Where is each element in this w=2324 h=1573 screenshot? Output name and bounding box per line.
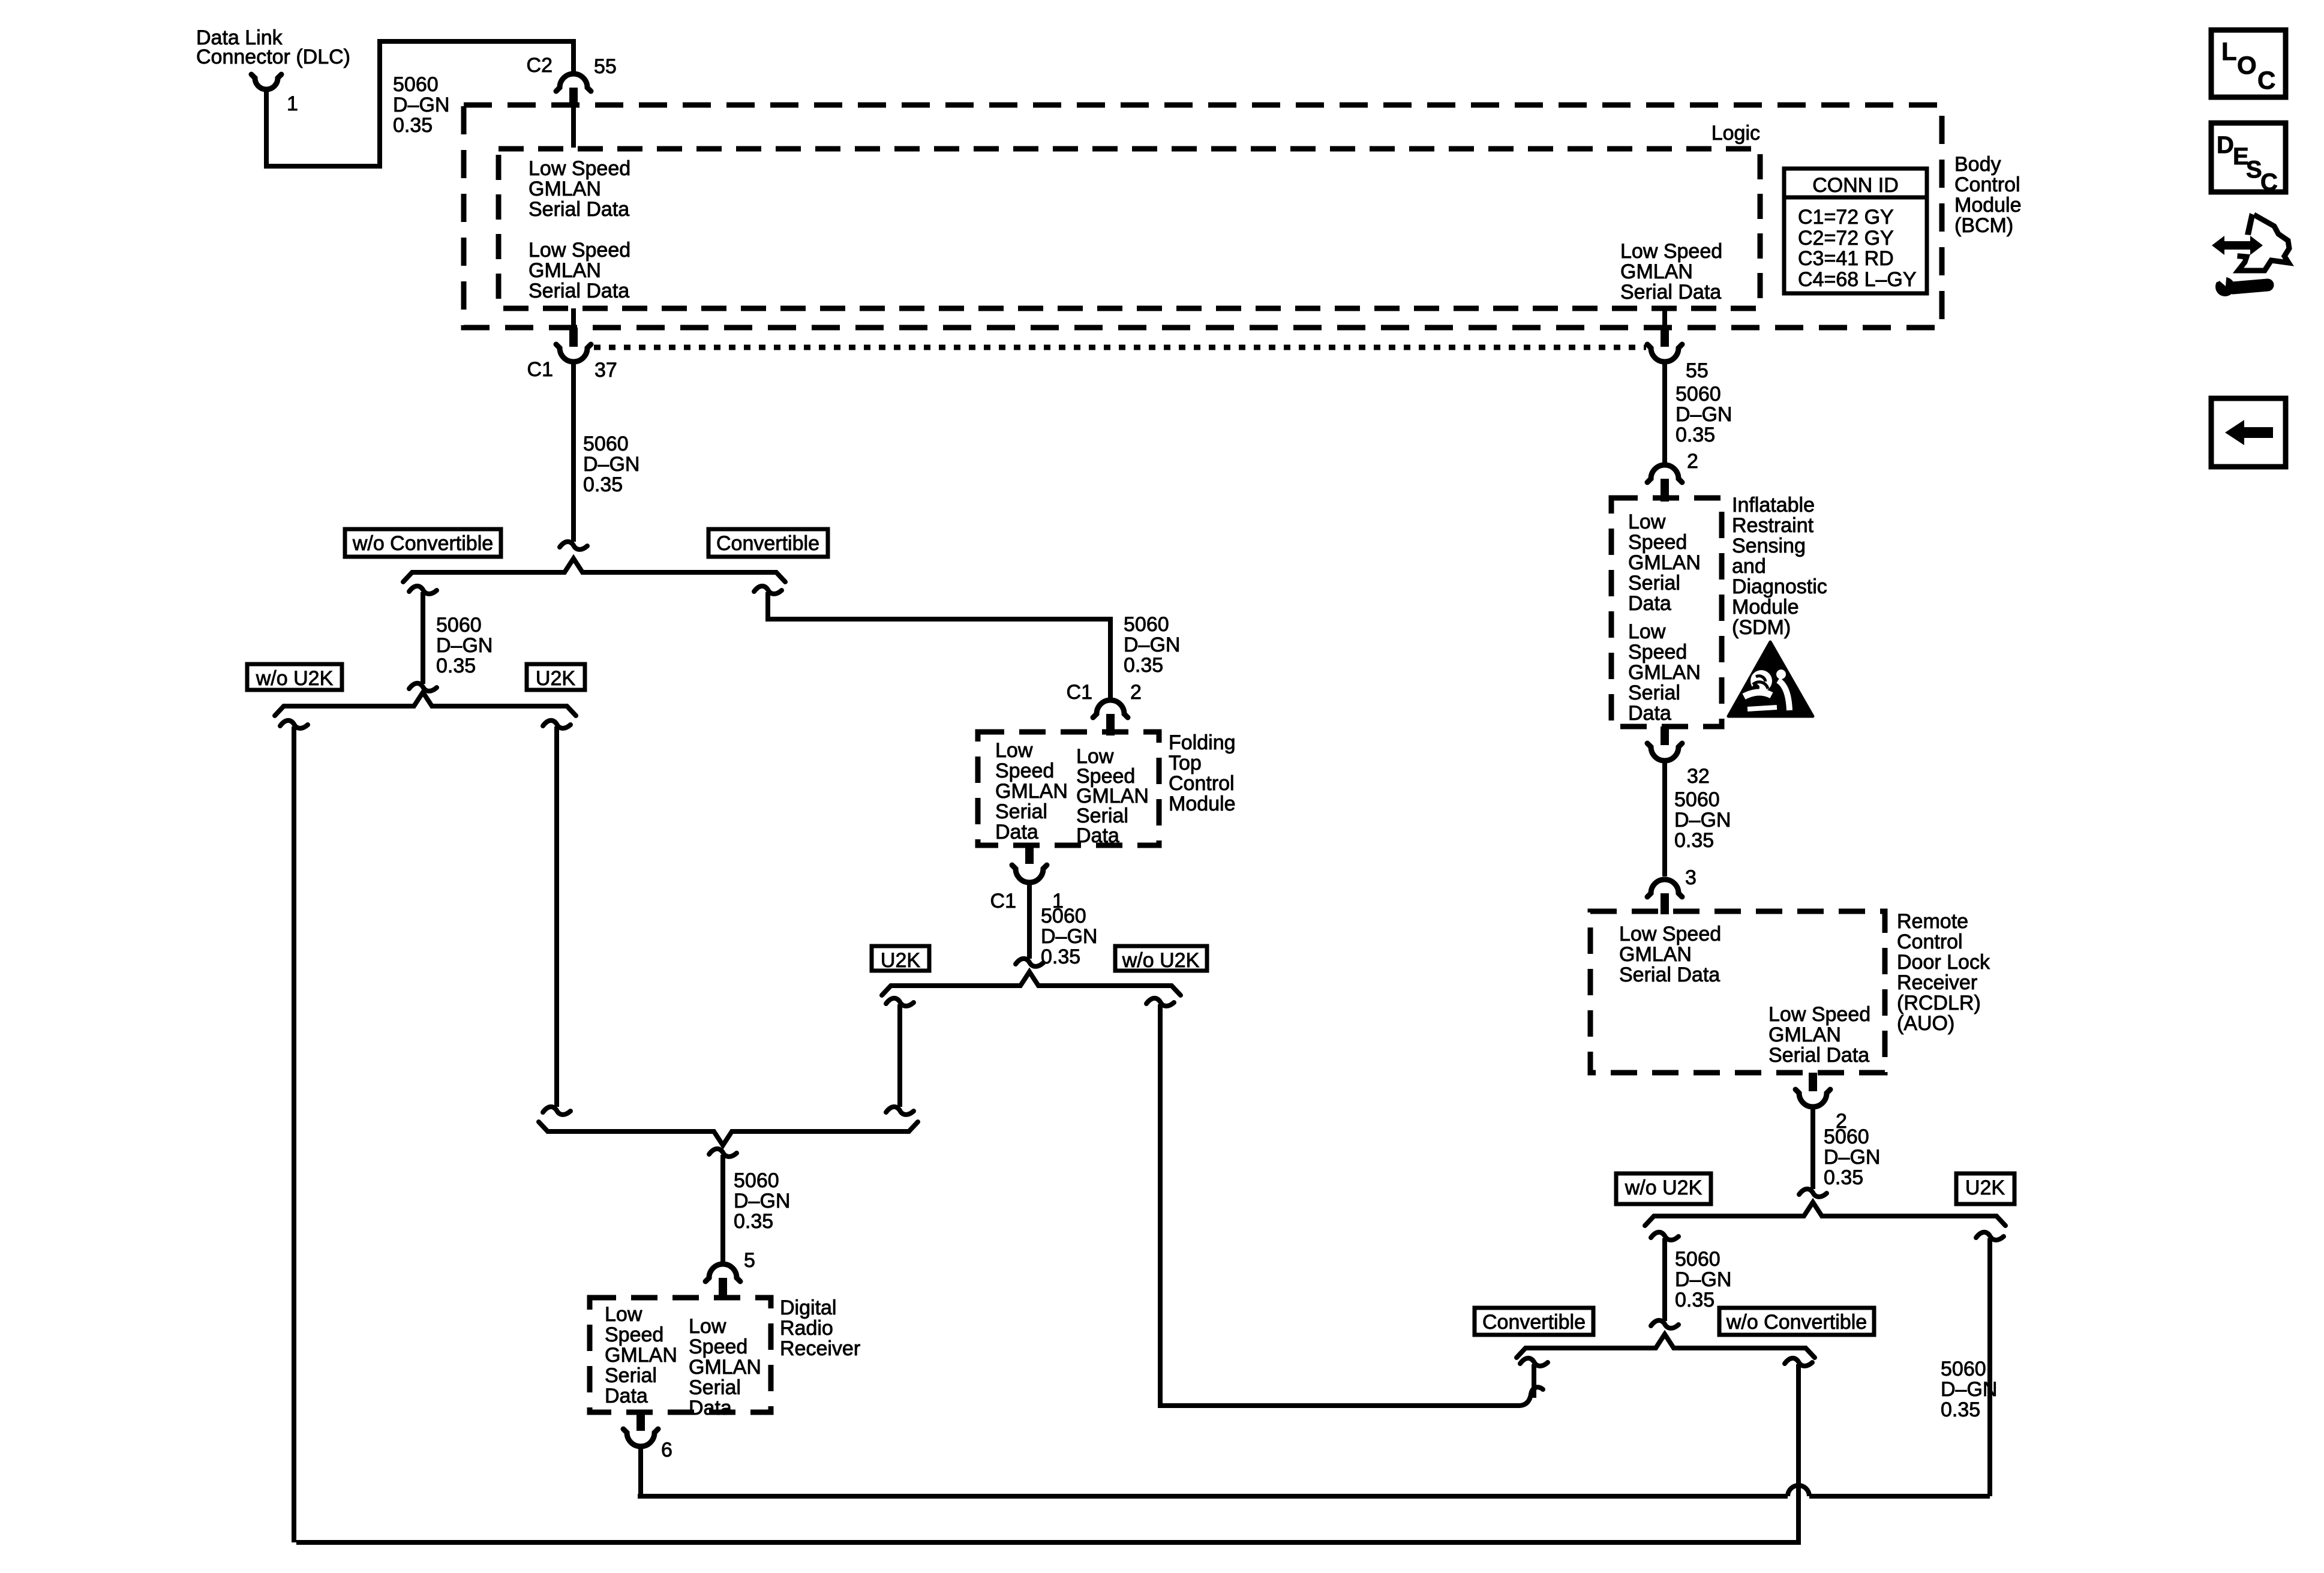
svg-text:2: 2: [1687, 450, 1698, 473]
option box: w/o U2K (left): [247, 664, 342, 690]
option box: U2K (RCDLR right): [1956, 1173, 2014, 1204]
svg-text:O: O: [2237, 51, 2257, 79]
option split: U2K | w/o U2K (FTCM): [882, 972, 1181, 995]
terminal stub into SDM: [1661, 479, 1669, 502]
option split: w/o U2K | U2K (left): [275, 692, 576, 716]
svg-text:C1=72 GYC2=72 GYC3=41 RDC4=68: C1=72 GYC2=72 GYC3=41 RDC4=68 L–GY: [1798, 206, 1917, 291]
terminal stub into RCDLR: [1661, 893, 1669, 914]
svg-text:5060D–GN0.35: 5060D–GN0.35: [1124, 613, 1180, 677]
connector: BCM C1 cavity 37: [556, 344, 591, 362]
svg-text:5060D–GN0.35: 5060D–GN0.35: [1675, 1248, 1731, 1311]
connector: RCDLR cavity 3: [1647, 879, 1682, 897]
svg-text:C: C: [2260, 169, 2278, 196]
svg-text:LowSpeedGMLANSerialData: LowSpeedGMLANSerialData: [995, 739, 1068, 843]
svg-text:Low SpeedGMLANSerial Data: Low SpeedGMLANSerial Data: [1620, 240, 1722, 304]
terminal stub out of RCDLR (pin 2): [1809, 1073, 1817, 1091]
svg-text:LowSpeedGMLANSerialData: LowSpeedGMLANSerialData: [689, 1315, 761, 1419]
connector: SDM cavity 32: [1647, 743, 1682, 761]
terminal stub out of DRR (pin 6): [636, 1412, 645, 1431]
icon: DESC reference box: [2211, 123, 2286, 196]
svg-text:InflatableRestraintSensingandD: InflatableRestraintSensingandDiagnosticM…: [1732, 494, 1827, 639]
svg-text:Data LinkConnector (DLC): Data LinkConnector (DLC): [196, 26, 350, 68]
wire: BCM C1-55 down to SDM pin 2: [1662, 364, 1667, 463]
svg-text:D: D: [2217, 132, 2234, 158]
wire end hook (left U2K branch): [543, 1107, 571, 1115]
junction curl: w/o U2K wire end meets Convertible branch: [1520, 1387, 1543, 1406]
svg-text:w/o U2K: w/o U2K: [256, 667, 334, 690]
terminal stub out of BCM (C1-55): [1661, 328, 1669, 347]
svg-text:Convertible: Convertible: [716, 532, 819, 555]
wire: w/o Convertible branch down, left along bottom to left w/o U2K branch: [296, 1364, 1798, 1542]
option box: Convertible (left): [708, 529, 828, 557]
connector: BCM C2 cavity: [556, 74, 591, 91]
svg-text:55: 55: [1686, 359, 1709, 382]
wire: merged U2K wire down to DRR pin 5: [720, 1155, 725, 1262]
wire: left U2K branch down to merge: [554, 727, 559, 1107]
wire: Convertible branch to Folding Top Control Module C1-2: [768, 592, 1110, 698]
icon: back-arrow reference box: [2211, 398, 2286, 467]
block: BCM Logic inner dashed box: [499, 149, 1760, 308]
svg-text:C1: C1: [990, 890, 1016, 912]
svg-text:5060D–GN0.35: 5060D–GN0.35: [436, 614, 493, 677]
wire: RCDLR U2K branch down to DRR return line: [1987, 1238, 1992, 1496]
svg-text:L: L: [2221, 37, 2237, 65]
wire end hook (RCDLR w/o U2K branch): [1651, 1320, 1679, 1328]
option box: w/o Convertible: [1719, 1308, 1874, 1335]
svg-text:Low SpeedGMLANSerial Data: Low SpeedGMLANSerial Data: [1619, 923, 1721, 986]
wire: inside BCM Logic to C1-55: [1662, 308, 1667, 328]
svg-text:5060D–GN0.35: 5060D–GN0.35: [1676, 383, 1732, 446]
wire: FTCM pin 1 down to option split: [1027, 884, 1032, 959]
module: Body Control Module (BCM) outer dashed box: [464, 105, 1942, 328]
wire: w/o Convertible sub-branch: [421, 592, 425, 684]
wire: RCDLR w/o U2K branch: [1662, 1238, 1667, 1321]
svg-text:Logic: Logic: [1712, 122, 1760, 145]
terminal stub into FTCM: [1106, 714, 1115, 736]
svg-text:U2K: U2K: [881, 949, 920, 972]
table: CONN ID: [1784, 169, 1927, 293]
connector: FTCM cavity 1: [1012, 865, 1047, 882]
wire: BCM C1-37 down to first option split: [571, 364, 576, 542]
svg-text:BodyControlModule(BCM): BodyControlModule(BCM): [1954, 153, 2022, 237]
wire: SDM pin 32 down to RCDLR pin 3: [1662, 763, 1667, 876]
wire start hook (Convertible branch): [1520, 1358, 1548, 1366]
connector: DLC cavity symbol: [251, 74, 281, 89]
option split: w/o Convertible | Convertible: [403, 559, 785, 582]
svg-text:LowSpeedGMLANSerialData: LowSpeedGMLANSerialData: [1628, 511, 1701, 615]
module: Digital Radio Receiver dashed box: [590, 1298, 771, 1412]
svg-text:CONN ID: CONN ID: [1812, 174, 1899, 197]
wire: FTCM U2K branch down to merge: [897, 1004, 902, 1107]
option split: w/o U2K | U2K (RCDLR): [1645, 1202, 2005, 1226]
svg-text:RemoteControlDoor LockReceiver: RemoteControlDoor LockReceiver(RCDLR)(AU…: [1897, 910, 1990, 1035]
icon: LOC reference box: [2211, 30, 2286, 97]
svg-text:DigitalRadioReceiver: DigitalRadioReceiver: [780, 1296, 860, 1360]
wire: Convertible branch down to junction: [1532, 1364, 1536, 1398]
wire: dotted link between BCM C1-37 and C1-55 connectors: [594, 345, 1646, 350]
wire: left w/o U2K branch down to bottom return line: [292, 727, 296, 1542]
wire start hook (FTCM w/o U2K branch): [1146, 998, 1174, 1006]
svg-text:5: 5: [744, 1249, 755, 1272]
option split: Convertible | w/o Convertible (RCDLR): [1517, 1334, 1815, 1358]
wire start hook (FTCM U2K branch): [886, 998, 914, 1006]
wire: DRR pin 6 return line to RCDLR U2K branch (with hop): [640, 1494, 1788, 1496]
wire start hook (DRR feed): [709, 1149, 737, 1157]
wire: DLC pin1 to BCM C2 (5060 D-GN 0.35): [266, 41, 574, 166]
wire start hook (RCDLR U2K branch): [1976, 1232, 2004, 1240]
wire start hook (left U2K branch): [543, 721, 571, 728]
connector: FTCM cavity 2: [1093, 700, 1128, 718]
wire hop: return line crosses w/o Convertible branch: [1788, 1485, 1809, 1496]
wire: FTCM w/o U2K branch down and right to Convertible branch: [1160, 1004, 1520, 1406]
svg-text:6: 6: [661, 1439, 672, 1461]
wire end hook (FTCM feed): [1016, 959, 1043, 966]
svg-text:Low SpeedGMLANSerial Data: Low SpeedGMLANSerial Data: [1768, 1003, 1870, 1067]
svg-text:3: 3: [1685, 866, 1697, 889]
wire: inside BCM from C2-55 to Logic box: [571, 107, 576, 148]
svg-text:5060D–GN0.35: 5060D–GN0.35: [1824, 1125, 1880, 1189]
svg-text:C2: C2: [527, 54, 553, 77]
icon: service/repair symbol (double arrow, panel, wrench): [2212, 213, 2289, 296]
svg-text:LowSpeedGMLANSerialData: LowSpeedGMLANSerialData: [1628, 620, 1701, 725]
svg-text:5060D–GN0.35: 5060D–GN0.35: [1674, 788, 1731, 852]
terminal stub out of FTCM (pin 1): [1025, 845, 1034, 864]
svg-text:32: 32: [1687, 765, 1710, 788]
svg-text:U2K: U2K: [1965, 1176, 2005, 1199]
wire start hook (w/o Convertible branch): [1785, 1358, 1812, 1366]
svg-text:5060D–GN0.35: 5060D–GN0.35: [393, 73, 449, 137]
terminal stub out of BCM (C1-37): [569, 328, 578, 347]
svg-text:w/o U2K: w/o U2K: [1122, 949, 1200, 972]
wire end hook (w/o Convertible sub-branch): [409, 683, 437, 691]
svg-text:U2K: U2K: [536, 667, 575, 690]
svg-text:37: 37: [594, 359, 617, 382]
terminal stub into DRR: [719, 1278, 727, 1300]
icon: SRS airbag warning triangle: [1728, 642, 1813, 716]
wire end hook (FTCM U2K branch): [886, 1107, 914, 1115]
connector: BCM C1 cavity 55: [1647, 344, 1682, 362]
svg-text:5060D–GN0.35: 5060D–GN0.35: [583, 433, 639, 496]
connector: SDM cavity 2: [1647, 465, 1682, 482]
svg-text:C1: C1: [1067, 681, 1092, 704]
connector: RCDLR cavity 2: [1795, 1089, 1830, 1107]
svg-text:LowSpeedGMLANSerialData: LowSpeedGMLANSerialData: [605, 1303, 677, 1407]
wire start hook (left w/o U2K branch): [280, 721, 308, 728]
wire start hook (Convertible sub-branch): [754, 586, 782, 594]
option box: w/o Convertible (left): [345, 529, 501, 557]
module: Inflatable Restraint Sensing and Diagnostic Module (SDM) dashed box: [1611, 498, 1722, 727]
svg-text:55: 55: [594, 55, 617, 78]
module: Folding Top Control Module dashed box: [978, 732, 1159, 845]
option box: w/o U2K (RCDLR left): [1616, 1173, 1711, 1204]
svg-text:Low SpeedGMLANSerial Data: Low SpeedGMLANSerial Data: [529, 239, 630, 302]
svg-text:FoldingTopControlModule: FoldingTopControlModule: [1169, 731, 1236, 815]
svg-text:5060D–GN0.35: 5060D–GN0.35: [734, 1169, 790, 1233]
wire: DRR pin 6 down to return line: [638, 1448, 643, 1495]
wire: RCDLR pin 2 down to option split: [1810, 1109, 1815, 1189]
wire end hook (C1-37 feed): [560, 542, 587, 550]
svg-text:5060D–GN0.35: 5060D–GN0.35: [1041, 905, 1097, 968]
wire: inside BCM Logic to C1-37: [571, 308, 576, 328]
option box: U2K (left): [527, 664, 585, 690]
svg-text:2: 2: [1130, 681, 1142, 704]
svg-text:LowSpeedGMLANSerialData: LowSpeedGMLANSerialData: [1076, 745, 1149, 847]
svg-text:C: C: [2257, 66, 2275, 94]
svg-text:w/o Convertible: w/o Convertible: [1726, 1311, 1867, 1334]
option box: w/o U2K (FTCM): [1115, 946, 1207, 972]
svg-text:1: 1: [287, 92, 298, 115]
connector: DRR cavity 5: [705, 1264, 740, 1281]
svg-text:Low SpeedGMLANSerial Data: Low SpeedGMLANSerial Data: [529, 157, 630, 221]
svg-text:C1: C1: [527, 358, 553, 381]
wire start hook (RCDLR w/o U2K branch): [1651, 1232, 1679, 1240]
connector: DRR cavity 6: [623, 1429, 658, 1446]
svg-text:w/o U2K: w/o U2K: [1625, 1176, 1703, 1199]
wire start hook (w/o Convertible sub-branch): [409, 586, 437, 594]
terminal stub out of SDM (pin 32): [1661, 727, 1669, 745]
module: Remote Control Door Lock Receiver (RCDLR) dashed box: [1590, 911, 1885, 1073]
svg-text:w/o Convertible: w/o Convertible: [352, 532, 493, 555]
option box: Convertible: [1475, 1308, 1593, 1335]
svg-text:S: S: [2246, 157, 2262, 183]
terminal stub into BCM (C2-55): [569, 88, 578, 107]
option merge: U2K branches into Digital Radio Receiver feed: [539, 1122, 918, 1145]
option box: U2K (FTCM): [872, 946, 929, 972]
svg-text:Convertible: Convertible: [1482, 1311, 1586, 1334]
wire end hook (RCDLR feed): [1799, 1189, 1827, 1197]
